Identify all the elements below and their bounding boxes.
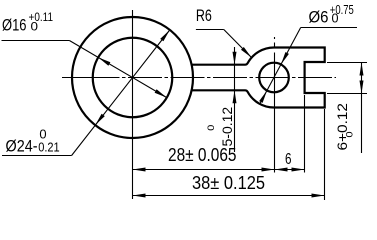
38 dim arrow right — [312, 194, 325, 198]
svg-text:Ø6: Ø6 — [309, 8, 329, 27]
R6 leader underline — [196, 29, 224, 31]
svg-text:Ø16: Ø16 — [2, 16, 27, 35]
svg-text:6: 6 — [285, 151, 292, 168]
5 dim arrow bottom (points up at bar bottom) — [233, 90, 237, 103]
O16 arrow far — [155, 89, 167, 97]
6 +0.12/0 dimension line vertical right — [361, 63, 363, 154]
O6 leader diagonal through circle — [259, 28, 300, 105]
inner circle O16 — [93, 38, 173, 118]
svg-text:0: 0 — [332, 12, 339, 26]
extension line slot left wall down — [304, 95, 306, 173]
slot extension line top — [327, 62, 367, 64]
O16 leader underline — [2, 40, 70, 42]
O24 diameter line — [72, 30, 170, 156]
rotated label 5 0/-0.12 — [206, 107, 235, 147]
bar bottom edge with fillet into boss arc R6 — [192, 90, 274, 107]
small circle O6 — [259, 63, 289, 93]
6 right dim arrow down — [360, 81, 364, 94]
O6 arrow far — [259, 91, 267, 103]
28 dimension line — [133, 169, 275, 171]
svg-text:R6: R6 — [196, 6, 212, 25]
5 dim arrow top (points down at bar top) — [233, 52, 237, 65]
bar top edge with fillet into boss arc R6 — [192, 48, 274, 65]
vertical centerline big circle / extension line — [132, 10, 134, 199]
O16 diameter line — [69, 41, 166, 98]
svg-text:38± 0.125: 38± 0.125 — [192, 172, 265, 193]
outer circle O24 — [72, 17, 193, 138]
6 dimension line (small circle center to slot wall) — [275, 169, 305, 171]
rotated label 6 +0.12/0 — [335, 103, 356, 151]
28 dim arrow left — [133, 168, 146, 172]
O24 arrow upper — [160, 30, 170, 41]
O6 arrow near — [281, 52, 289, 64]
svg-text:28± 0.065: 28± 0.065 — [168, 144, 237, 165]
28 dim arrow right — [262, 168, 275, 172]
svg-text:Ø24-: Ø24- — [6, 137, 38, 156]
horizontal centerline — [62, 77, 336, 79]
svg-text:0: 0 — [31, 20, 39, 34]
O6 leader underline — [301, 27, 357, 29]
svg-text:0: 0 — [206, 125, 217, 131]
slot extension line bottom — [327, 93, 367, 95]
O24 arrow lower — [95, 114, 105, 125]
svg-text:5-0.12: 5-0.12 — [220, 107, 235, 147]
6 dim arrow right (tip at slot wall pointing right) — [292, 168, 305, 172]
vertical centerline small circle / extension line — [274, 37, 276, 173]
R6 leader diagonal — [224, 30, 252, 58]
6 dim arrow left (tip at 274 pointing left) — [275, 168, 288, 172]
svg-text:6+0.12: 6+0.12 — [335, 103, 350, 151]
right block with slot — [274, 48, 325, 108]
svg-text:0.21: 0.21 — [38, 139, 60, 154]
38 dimension line — [133, 195, 325, 197]
38 dim arrow left — [133, 194, 146, 198]
svg-text:0: 0 — [345, 132, 356, 138]
6 right dim arrow up — [360, 63, 364, 76]
5 dimension line vertical — [234, 47, 236, 152]
O24 leader underline — [2, 155, 72, 157]
R6 arrow — [241, 47, 252, 58]
extension line block right edge down — [324, 109, 326, 200]
O16 arrow near — [98, 57, 110, 65]
